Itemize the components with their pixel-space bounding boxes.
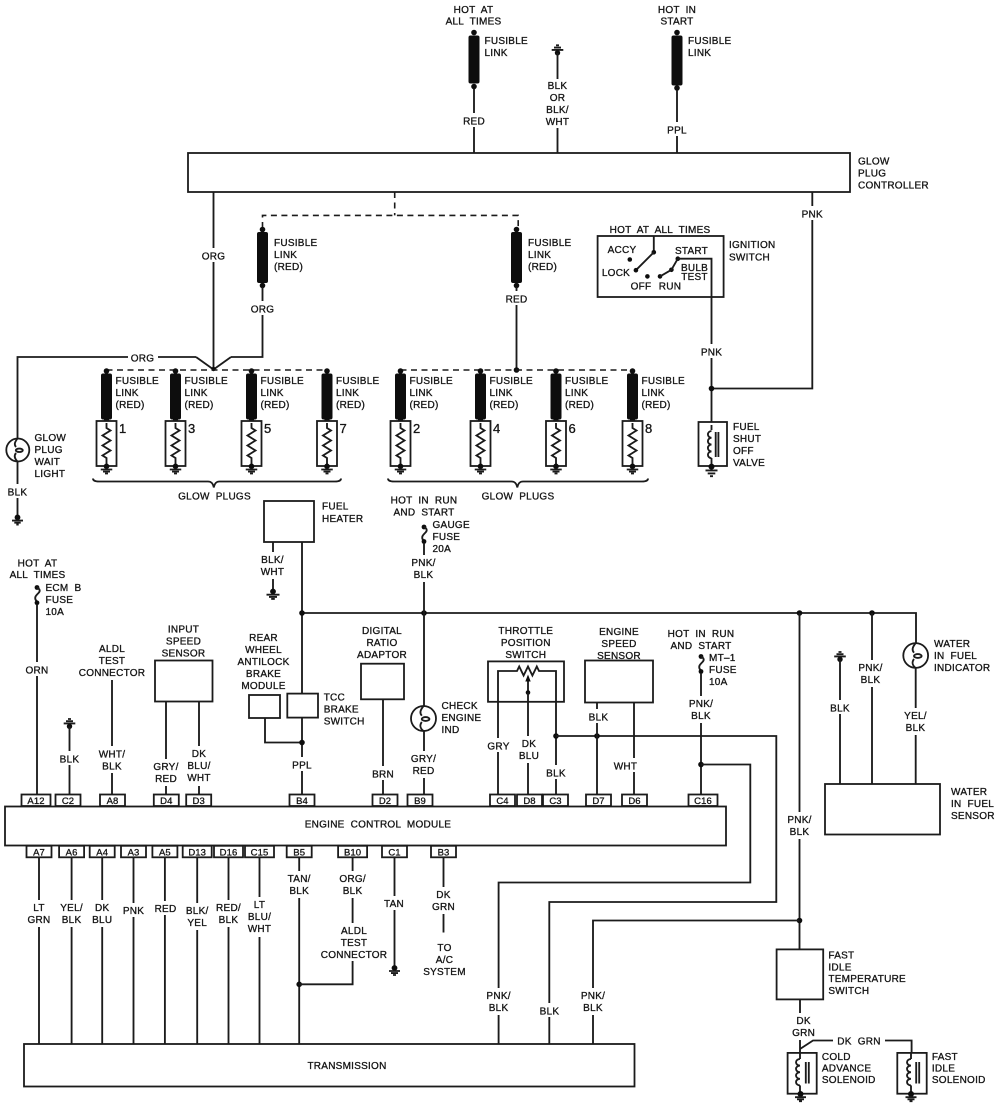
svg-text:BLK: BLK — [546, 769, 566, 780]
pin D16 — [214, 846, 243, 859]
wire PNK ignition switch to fuel shut off valve — [678, 259, 726, 422]
node HOT IN RUN AND START (MT-1 feed) — [668, 629, 735, 652]
svg-text:C4: C4 — [496, 796, 508, 807]
svg-text:D6: D6 — [628, 796, 640, 807]
svg-text:FUSE: FUSE — [46, 595, 74, 606]
svg-text:BRAKE: BRAKE — [324, 705, 359, 716]
svg-text:C3: C3 — [549, 796, 561, 807]
cold advance solenoid L2 — [788, 1052, 876, 1094]
pin C3 — [543, 795, 568, 808]
wire TAN (C1) — [380, 857, 408, 966]
glow plug 2 (resistor) — [391, 421, 421, 466]
wire RED to glow plug controller — [461, 89, 487, 154]
ground below wait light — [12, 515, 23, 525]
svg-text:C15: C15 — [251, 847, 269, 858]
svg-text:2: 2 — [413, 421, 420, 436]
svg-text:WATER: WATER — [951, 787, 987, 798]
svg-text:GLOW: GLOW — [858, 157, 890, 168]
svg-text:SOLENOID: SOLENOID — [932, 1075, 986, 1086]
svg-text:CHECK: CHECK — [442, 701, 478, 712]
water in fuel sensor — [825, 784, 995, 835]
svg-text:FUSIBLE: FUSIBLE — [116, 376, 160, 387]
pin D6 — [622, 795, 647, 808]
svg-text:IN FUEL: IN FUEL — [934, 651, 977, 662]
svg-text:(RED): (RED) — [642, 400, 671, 411]
svg-text:BLK/: BLK/ — [186, 906, 209, 917]
node ALDL TEST CONNECTOR (B10) — [320, 923, 387, 961]
svg-text:LINK: LINK — [642, 388, 665, 399]
svg-text:BLK: BLK — [102, 762, 122, 773]
ground below glow plug 5 — [246, 464, 258, 474]
svg-text:BLK: BLK — [906, 723, 926, 734]
svg-text:LT: LT — [254, 900, 265, 911]
svg-text:ORG: ORG — [202, 252, 226, 263]
fuel heater — [264, 501, 363, 542]
svg-text:D16: D16 — [220, 847, 238, 858]
svg-text:DK: DK — [436, 890, 450, 901]
svg-text:HOT IN RUN: HOT IN RUN — [391, 496, 458, 507]
glow plug 5 (resistor) — [242, 421, 272, 466]
svg-text:LINK: LINK — [261, 388, 284, 399]
wire BLK to D7 — [584, 703, 612, 795]
svg-text:LINK: LINK — [485, 48, 508, 59]
label IGNITION SWITCH — [729, 240, 775, 264]
svg-text:PPL: PPL — [667, 126, 687, 137]
pin A8 — [100, 795, 125, 808]
svg-text:HOT IN RUN: HOT IN RUN — [668, 629, 735, 640]
svg-text:BLK: BLK — [219, 915, 239, 926]
fusible link (RED) for glow plug 3 — [170, 368, 228, 423]
svg-text:LINK: LINK — [336, 388, 359, 399]
ground below cold advance solenoid — [795, 1091, 806, 1101]
pin A7 — [27, 846, 52, 859]
svg-text:GLOW PLUGS: GLOW PLUGS — [482, 492, 555, 503]
svg-text:ALL TIMES: ALL TIMES — [446, 17, 502, 28]
svg-text:BLK: BLK — [548, 81, 568, 92]
svg-text:GRN: GRN — [28, 915, 51, 926]
svg-text:B9: B9 — [414, 796, 426, 807]
dashed bus wire (glow plugs 2-8) — [401, 369, 633, 371]
node HOT AT ALL TIMES (ignition feed) — [610, 225, 711, 236]
node HOT IN RUN AND START (gauge fuse feed) — [391, 496, 458, 519]
svg-text:5: 5 — [264, 421, 271, 436]
svg-text:LOCK: LOCK — [602, 268, 630, 279]
svg-text:ADVANCE: ADVANCE — [822, 1064, 871, 1075]
wire PNK (A3 to transmission) — [119, 857, 148, 1043]
wire TAN/BLK (B5 to transmission) — [284, 857, 315, 1043]
pin A5 — [152, 846, 177, 859]
fusible link (top left) — [469, 30, 529, 90]
pin C1 — [382, 846, 407, 859]
svg-text:A4: A4 — [96, 847, 108, 858]
svg-text:BLK: BLK — [589, 713, 609, 724]
wire DK GRN (B3 to A/C system) — [429, 857, 458, 932]
ground below glow plug 8 — [627, 464, 639, 474]
svg-text:LINK: LINK — [688, 48, 711, 59]
svg-text:C16: C16 — [694, 796, 712, 807]
svg-text:BLK: BLK — [414, 570, 434, 581]
svg-text:ORG: ORG — [131, 354, 155, 365]
svg-text:BLK: BLK — [861, 675, 881, 686]
dashed jumper wire below controller — [263, 192, 519, 228]
pin B5 — [287, 846, 312, 859]
wire GRY/RED to B9 — [408, 751, 439, 778]
fast idle solenoid L3 — [897, 1052, 985, 1094]
svg-text:1: 1 — [119, 421, 126, 436]
pin D13 — [183, 846, 212, 859]
dashed bus wire (glow plugs 1-7) — [107, 369, 328, 371]
svg-text:CONNECTOR: CONNECTOR — [79, 668, 146, 679]
svg-text:BLK/: BLK/ — [546, 105, 569, 116]
pin D8 — [517, 795, 542, 808]
svg-text:CONTROLLER: CONTROLLER — [858, 181, 929, 192]
svg-text:PNK/: PNK/ — [486, 991, 510, 1002]
fuel shut off valve L1 — [699, 422, 728, 466]
svg-text:YEL/: YEL/ — [60, 903, 83, 914]
wire DK BLU to D8 — [515, 702, 543, 795]
net PNK/BLK (right branch to transmission) — [578, 921, 800, 1044]
svg-text:SPEED: SPEED — [166, 637, 201, 648]
svg-text:REAR: REAR — [249, 633, 278, 644]
svg-text:SWITCH: SWITCH — [505, 650, 546, 661]
svg-text:(RED): (RED) — [565, 400, 594, 411]
svg-text:ORG: ORG — [251, 305, 275, 316]
svg-text:PNK/: PNK/ — [858, 663, 882, 674]
ground below fuel heater — [267, 589, 280, 599]
svg-text:BLK: BLK — [489, 1003, 509, 1014]
svg-text:TEST: TEST — [341, 938, 368, 949]
svg-text:IND: IND — [442, 725, 460, 736]
svg-text:START: START — [675, 246, 708, 257]
wire GRY/RED to D4 — [151, 702, 182, 795]
svg-text:D4: D4 — [160, 796, 172, 807]
glow plug 3 (resistor) — [166, 421, 196, 466]
pin D7 — [586, 795, 611, 808]
net BLK (C3/D7 to transmission) — [535, 733, 776, 1043]
svg-text:PNK: PNK — [701, 348, 722, 359]
svg-text:FAST: FAST — [828, 951, 854, 962]
fuse MT-1 10A — [699, 653, 737, 688]
transmission — [24, 1044, 635, 1087]
svg-text:MT–1: MT–1 — [709, 653, 736, 664]
svg-text:FUSIBLE: FUSIBLE — [642, 376, 686, 387]
svg-text:WHT: WHT — [546, 117, 570, 128]
wire PNK/BLK bus to fast idle temperature switch — [784, 613, 815, 949]
svg-text:BLK: BLK — [8, 488, 28, 499]
svg-text:B4: B4 — [296, 796, 308, 807]
svg-text:(RED): (RED) — [528, 262, 557, 273]
svg-text:INPUT: INPUT — [168, 625, 199, 636]
svg-text:SWITCH: SWITCH — [324, 717, 365, 728]
svg-text:BRN: BRN — [372, 770, 394, 781]
svg-text:BLU: BLU — [519, 751, 539, 762]
svg-text:(RED): (RED) — [490, 400, 519, 411]
input speed sensor — [155, 625, 213, 702]
svg-text:TEST: TEST — [99, 656, 126, 667]
svg-text:SYSTEM: SYSTEM — [423, 967, 466, 978]
svg-text:INDICATOR: INDICATOR — [934, 663, 990, 674]
svg-text:FUSIBLE: FUSIBLE — [565, 376, 609, 387]
wire ORG controller to splice — [200, 192, 227, 368]
svg-text:HOT IN: HOT IN — [658, 5, 696, 16]
wire RED below right fusible link — [503, 287, 530, 373]
glow plug wait light lamp — [6, 433, 66, 480]
pin A12 — [22, 795, 51, 808]
wire LT GRN (A7 to transmission) — [25, 857, 53, 1043]
svg-text:RED: RED — [506, 295, 528, 306]
svg-text:GLOW PLUGS: GLOW PLUGS — [178, 492, 251, 503]
svg-text:A5: A5 — [159, 847, 171, 858]
svg-text:MODULE: MODULE — [241, 681, 285, 692]
svg-text:YEL: YEL — [187, 918, 207, 929]
svg-text:TEMPERATURE: TEMPERATURE — [828, 974, 906, 985]
svg-text:A/C: A/C — [436, 955, 453, 966]
node ALDL TEST CONNECTOR (A8) — [79, 644, 146, 679]
svg-text:B3: B3 — [438, 847, 450, 858]
TCC brake switch — [287, 693, 364, 728]
svg-text:(RED): (RED) — [274, 262, 303, 273]
wire PPL to controller — [664, 90, 690, 153]
svg-text:ORN: ORN — [26, 666, 49, 677]
svg-text:PNK/: PNK/ — [411, 558, 435, 569]
svg-text:C1: C1 — [388, 847, 400, 858]
pin D4 — [154, 795, 179, 808]
wire BLK/WHT below fuel heater — [258, 542, 288, 589]
svg-text:FUSIBLE: FUSIBLE — [528, 238, 572, 249]
wire PNK/BLK to water in fuel sensor — [855, 613, 886, 784]
svg-text:PLUG: PLUG — [858, 169, 886, 180]
ground below fast idle solenoid — [906, 1091, 917, 1101]
svg-text:FUSIBLE: FUSIBLE — [336, 376, 380, 387]
wire YEL/BLK (A6 to transmission) — [56, 857, 87, 1043]
svg-text:WHT: WHT — [248, 924, 272, 935]
water in fuel indicator lamp — [903, 639, 990, 674]
pin B3 — [431, 846, 456, 859]
pin C15 — [245, 846, 274, 859]
pin A6 — [59, 846, 84, 859]
svg-text:YEL/: YEL/ — [904, 711, 927, 722]
svg-text:3: 3 — [188, 421, 195, 436]
pin D2 — [373, 795, 398, 808]
pin B9 — [408, 795, 433, 808]
svg-text:IDLE: IDLE — [932, 1064, 955, 1075]
pin B10 — [338, 846, 367, 859]
svg-text:ENGINE: ENGINE — [599, 627, 639, 638]
svg-text:SHUT: SHUT — [733, 434, 761, 445]
glow plug 7 (resistor) — [317, 421, 347, 466]
fusible link (RED) for glow plug 8 — [627, 368, 685, 423]
ground below glow plug 4 — [475, 464, 487, 474]
svg-text:BLU/: BLU/ — [187, 761, 210, 772]
wire BLK OR BLK/WHT to controller — [543, 53, 573, 153]
svg-text:BLK: BLK — [540, 1007, 560, 1018]
svg-text:B10: B10 — [344, 847, 361, 858]
ground below C1 — [389, 965, 400, 975]
svg-text:A3: A3 — [128, 847, 140, 858]
svg-text:ALDL: ALDL — [341, 926, 367, 937]
svg-text:WHT: WHT — [614, 762, 638, 773]
pin C16 — [689, 795, 718, 808]
wire BLK below wait light — [3, 462, 30, 516]
fusible link (RED) for glow plug 7 — [322, 368, 380, 423]
svg-text:ENGINE: ENGINE — [442, 713, 482, 724]
svg-text:FUSIBLE: FUSIBLE — [185, 376, 229, 387]
svg-text:D8: D8 — [523, 796, 535, 807]
svg-text:DIGITAL: DIGITAL — [362, 626, 402, 637]
svg-text:AND START: AND START — [671, 641, 732, 652]
label FUEL SHUT OFF VALVE — [733, 422, 765, 469]
svg-text:TO: TO — [437, 943, 451, 954]
svg-text:BLU: BLU — [92, 915, 112, 926]
wire YEL/BLK indicator to sensor — [900, 668, 931, 784]
svg-text:FUSIBLE: FUSIBLE — [688, 36, 732, 47]
svg-text:(RED): (RED) — [116, 400, 145, 411]
svg-text:4: 4 — [493, 421, 500, 436]
svg-text:IDLE: IDLE — [828, 962, 851, 973]
svg-text:D13: D13 — [188, 847, 206, 858]
svg-text:OR: OR — [550, 93, 566, 104]
svg-text:BLK: BLK — [830, 704, 850, 715]
svg-text:BLK: BLK — [62, 915, 82, 926]
node HOT IN START (top right feed) — [658, 5, 696, 28]
svg-text:FAST: FAST — [932, 1052, 958, 1063]
svg-text:LINK: LINK — [185, 388, 208, 399]
ground above water in fuel sensor — [834, 652, 846, 662]
svg-text:PNK/: PNK/ — [787, 815, 811, 826]
svg-text:FUEL: FUEL — [733, 422, 760, 433]
svg-text:LINK: LINK — [528, 250, 551, 261]
ground below glow plug 1 — [101, 464, 113, 474]
wire PNK/BLK gauge fuse to bus — [408, 543, 439, 613]
svg-text:8: 8 — [645, 421, 652, 436]
pin C4 — [490, 795, 515, 808]
pin C2 — [56, 795, 81, 808]
svg-text:BRAKE: BRAKE — [246, 669, 281, 680]
wire DK GRN below fast idle temperature switch — [789, 999, 818, 1053]
svg-text:ANTILOCK: ANTILOCK — [237, 657, 289, 668]
svg-text:GRY: GRY — [487, 742, 509, 753]
digital ratio adaptor — [357, 626, 407, 699]
node TO A/C SYSTEM — [423, 943, 466, 978]
fuse ECM B 10A — [35, 583, 82, 618]
brace GLOW PLUGS (right bank) — [388, 479, 648, 503]
svg-text:PPL: PPL — [292, 761, 312, 772]
rear wheel antilock brake module — [237, 633, 289, 718]
svg-text:GRN: GRN — [792, 1028, 815, 1039]
svg-text:AND START: AND START — [394, 508, 455, 519]
svg-text:LINK: LINK — [565, 388, 588, 399]
svg-text:WAIT: WAIT — [35, 457, 61, 468]
svg-text:GRY/: GRY/ — [153, 762, 178, 773]
svg-text:FUEL: FUEL — [322, 502, 349, 513]
wire fuel heater to TCC brake switch — [301, 542, 303, 694]
svg-text:DK GRN: DK GRN — [837, 1037, 880, 1048]
ground below glow plug 7 — [321, 464, 333, 474]
wire GRY to C4 — [485, 702, 512, 795]
svg-text:ACCY: ACCY — [608, 245, 637, 256]
svg-text:ECM B: ECM B — [46, 583, 82, 594]
svg-text:D7: D7 — [592, 796, 604, 807]
svg-text:HEATER: HEATER — [322, 514, 363, 525]
svg-text:ALDL: ALDL — [99, 644, 125, 655]
ground below fuel shut off valve — [706, 464, 718, 477]
svg-text:FUSIBLE: FUSIBLE — [485, 36, 529, 47]
svg-text:LINK: LINK — [410, 388, 433, 399]
net PNK/BLK (C16 to transmission) — [483, 765, 750, 1044]
engine control module U2 — [5, 807, 726, 846]
svg-text:A8: A8 — [107, 796, 119, 807]
glow plug 4 (resistor) — [471, 421, 501, 466]
ground below glow plug 6 — [550, 464, 562, 474]
svg-text:DK: DK — [522, 739, 536, 750]
svg-text:CONNECTOR: CONNECTOR — [321, 950, 388, 961]
wire BRN to D2 — [369, 699, 397, 794]
ground (top center) — [552, 45, 564, 55]
engine speed sensor — [585, 627, 653, 703]
glow plug 8 (resistor) — [623, 421, 653, 466]
svg-text:FUSIBLE: FUSIBLE — [410, 376, 454, 387]
fusible link (RED) for glow plug 5 — [246, 368, 304, 423]
wire PNK controller right — [712, 192, 827, 389]
wire PNK/BLK to C16 — [686, 673, 716, 795]
svg-text:(RED): (RED) — [261, 400, 290, 411]
svg-text:SWITCH: SWITCH — [828, 986, 869, 997]
svg-text:LINK: LINK — [274, 250, 297, 261]
svg-text:20A: 20A — [433, 544, 452, 555]
svg-text:HOT AT: HOT AT — [454, 5, 494, 16]
svg-text:TAN: TAN — [384, 899, 404, 910]
fusible link (RED) for glow plug 1 — [101, 368, 159, 423]
svg-text:GRN: GRN — [432, 902, 455, 913]
svg-text:DK: DK — [192, 749, 206, 760]
svg-text:DK: DK — [796, 1016, 810, 1027]
svg-text:RATIO: RATIO — [366, 638, 397, 649]
svg-text:BLU/: BLU/ — [248, 912, 271, 923]
potentiometer inside TPS — [498, 667, 556, 702]
svg-text:LINK: LINK — [490, 388, 513, 399]
svg-text:IGNITION: IGNITION — [729, 240, 775, 251]
svg-text:FUSIBLE: FUSIBLE — [261, 376, 305, 387]
svg-text:LT: LT — [33, 903, 44, 914]
wire RED/BLK (D16 to transmission) — [213, 857, 244, 1043]
fusible link (RED) left — [257, 227, 318, 289]
svg-text:A7: A7 — [33, 847, 45, 858]
wire WHT/BLK to A8 — [97, 680, 128, 795]
svg-text:OFF: OFF — [631, 282, 652, 293]
wire WHT to D6 — [610, 703, 641, 795]
throttle position switch — [488, 626, 564, 702]
brace GLOW PLUGS (left bank) — [93, 479, 341, 503]
svg-text:SWITCH: SWITCH — [729, 253, 770, 264]
wire BLK to C3 — [542, 702, 570, 795]
svg-text:COLD: COLD — [822, 1052, 851, 1063]
svg-text:TCC: TCC — [324, 693, 345, 704]
svg-text:WHEEL: WHEEL — [245, 645, 282, 656]
svg-text:TAN/: TAN/ — [288, 874, 311, 885]
splice node (arrow junction) — [211, 367, 215, 371]
svg-text:TEST: TEST — [681, 272, 708, 283]
wire BLK/YEL (D13 to transmission) — [182, 857, 213, 1043]
svg-text:(RED): (RED) — [336, 400, 365, 411]
ignition switch S1 — [598, 236, 724, 297]
svg-text:A6: A6 — [66, 847, 78, 858]
wiper arm inside TPS — [525, 675, 530, 702]
ground above C2 — [64, 719, 76, 729]
wire BLK to water in fuel sensor — [826, 660, 854, 785]
svg-text:D2: D2 — [379, 796, 391, 807]
fusible link (RED) for glow plug 2 — [395, 368, 453, 423]
label GLOW PLUG CONTROLLER — [858, 157, 929, 192]
